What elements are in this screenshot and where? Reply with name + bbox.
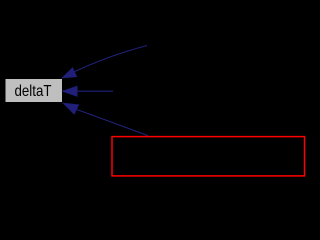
arrowhead edge2 [62, 86, 77, 96]
arrowhead edge3 [63, 103, 79, 114]
wire edge1 (top caller line) [75, 46, 148, 72]
svg-text:deltaT: deltaT [15, 83, 52, 100]
node red box [112, 137, 305, 176]
wire edge3 (from red node) [77, 110, 148, 136]
node deltaT (grey box) [6, 79, 63, 102]
arrowhead edge1 [62, 68, 77, 78]
wire edge2 (middle caller line) [77, 90, 113, 92]
